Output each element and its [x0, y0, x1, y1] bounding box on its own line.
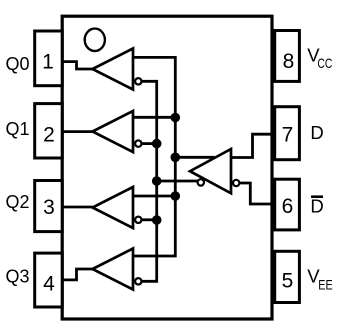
- wire pin1 to buffer A1: [61, 62, 93, 69]
- overline of Dbar: [311, 195, 323, 198]
- svg-text:Q1: Q1: [6, 119, 30, 139]
- svg-text:5: 5: [282, 270, 294, 293]
- wire pin3 to buffer A3: [61, 206, 93, 209]
- buffer A1 input bubble: [135, 78, 141, 84]
- pin 5 box: [275, 251, 300, 302]
- svg-text:Q0: Q0: [6, 54, 30, 74]
- svg-text:Q2: Q2: [6, 192, 30, 212]
- receiver input bubble (pin 6 side): [233, 180, 239, 186]
- bus B tap from receiver bubble: [157, 180, 198, 183]
- junction dot bus A / buffer A3: [171, 191, 181, 201]
- bus B tap to buffer A2 bubble: [142, 142, 157, 145]
- svg-text:D: D: [310, 195, 323, 216]
- receiver U2 triangle: [190, 149, 231, 193]
- wire receiver to pin 7: [231, 134, 275, 157]
- junction dot bus B / buffer A3: [152, 215, 162, 225]
- wire pin4 to buffer A4: [61, 269, 93, 280]
- svg-text:7: 7: [282, 123, 294, 146]
- svg-text:1: 1: [42, 50, 54, 73]
- svg-text:6: 6: [282, 195, 294, 218]
- buffer A3 input bubble: [135, 217, 141, 223]
- svg-text:CC: CC: [317, 55, 332, 71]
- bus B complement rail: [142, 81, 157, 281]
- pin 3 box: [35, 181, 63, 232]
- IC body U1: [62, 16, 272, 319]
- pin 2 box: [35, 104, 63, 158]
- pin 4 box: [35, 253, 63, 307]
- wire pin2 to buffer A2: [61, 130, 93, 133]
- svg-text:D: D: [310, 122, 323, 143]
- svg-text:Q3: Q3: [6, 267, 30, 287]
- bus A tap from receiver: [175, 156, 214, 159]
- buffer A2 triangle: [93, 111, 134, 152]
- svg-text:4: 4: [43, 273, 55, 296]
- junction dot bus B / buffer A2: [152, 139, 162, 149]
- junction dot bus B / receiver: [152, 176, 162, 186]
- svg-text:2: 2: [43, 124, 55, 147]
- bus A true-signal rail: [133, 57, 175, 256]
- junction dot bus A / buffer A2: [171, 113, 181, 123]
- svg-text:8: 8: [283, 50, 295, 73]
- pin 6 box: [275, 179, 300, 230]
- pin 7 box: [275, 107, 300, 160]
- junction dot bus A / receiver: [171, 153, 181, 163]
- buffer A4 triangle: [93, 249, 134, 290]
- bus B tap to buffer A3 bubble: [142, 218, 157, 221]
- wire receiver bubble to pin 6: [240, 183, 275, 204]
- buffer A3 triangle: [93, 187, 134, 228]
- svg-text:3: 3: [43, 196, 55, 219]
- svg-text:EE: EE: [318, 276, 332, 292]
- pin 8 box: [275, 31, 300, 82]
- buffer A4 input bubble: [135, 278, 141, 284]
- buffer A2 input bubble: [135, 140, 141, 146]
- pin 1 box: [35, 31, 63, 86]
- receiver complement output bubble: [198, 179, 204, 185]
- bus A tap to buffer A3: [133, 195, 175, 198]
- pin1 orientation circle: [85, 29, 105, 51]
- buffer A1 triangle: [93, 49, 134, 90]
- bus A tap to buffer A2: [133, 116, 175, 119]
